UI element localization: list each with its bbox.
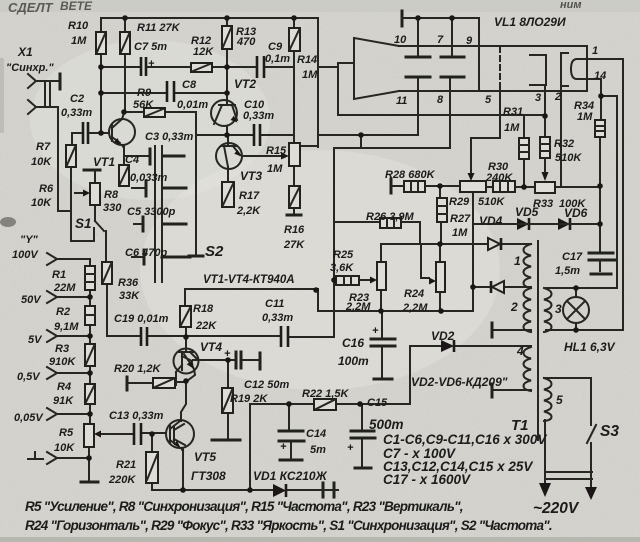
svg-text:10K: 10K bbox=[54, 442, 75, 454]
svg-text:R24 "Горизонталь", R29 "Фокус": R24 "Горизонталь", R29 "Фокус", R33 "Ярк… bbox=[25, 518, 552, 533]
svg-text:S3: S3 bbox=[600, 423, 619, 440]
svg-text:10K: 10K bbox=[31, 156, 52, 168]
svg-text:"Y": "Y" bbox=[20, 234, 39, 246]
svg-text:VD1 КС210Ж: VD1 КС210Ж bbox=[253, 469, 328, 483]
svg-text:+: + bbox=[280, 441, 287, 453]
svg-text:C9: C9 bbox=[268, 41, 283, 53]
svg-text:14: 14 bbox=[594, 70, 606, 82]
svg-text:C6 470p: C6 470p bbox=[125, 247, 167, 259]
svg-text:0,1m: 0,1m bbox=[265, 53, 290, 65]
svg-text:2,2K: 2,2K bbox=[236, 205, 261, 217]
svg-text:91K: 91K bbox=[53, 395, 74, 407]
svg-text:C5 3300p: C5 3300p bbox=[127, 206, 176, 218]
svg-text:R16: R16 bbox=[284, 224, 305, 236]
svg-text:VD2-VD6-КД209": VD2-VD6-КД209" bbox=[411, 375, 508, 389]
svg-text:R31: R31 bbox=[503, 106, 523, 118]
svg-text:5m: 5m bbox=[310, 444, 326, 456]
svg-text:510K: 510K bbox=[478, 196, 505, 208]
svg-text:HL1 6,3V: HL1 6,3V bbox=[564, 340, 616, 354]
svg-text:R14: R14 bbox=[297, 54, 317, 66]
svg-text:5: 5 bbox=[485, 94, 492, 106]
svg-text:C1-C6,C9-C11,C16 x 300V: C1-C6,C9-C11,C16 x 300V bbox=[383, 432, 547, 447]
svg-text:+: + bbox=[148, 58, 155, 70]
svg-text:VD6: VD6 bbox=[564, 206, 588, 220]
svg-text:2: 2 bbox=[554, 91, 561, 103]
svg-text:+: + bbox=[372, 325, 379, 337]
svg-text:56K: 56K bbox=[133, 99, 154, 111]
svg-text:C13 0,33m: C13 0,33m bbox=[109, 410, 164, 422]
svg-text:R18: R18 bbox=[193, 303, 214, 315]
svg-text:100V: 100V bbox=[12, 249, 39, 261]
svg-text:1M: 1M bbox=[577, 111, 593, 123]
svg-text:1: 1 bbox=[514, 254, 521, 268]
svg-text:VT4: VT4 bbox=[200, 340, 222, 354]
svg-text:R21: R21 bbox=[116, 459, 136, 471]
svg-text:C14: C14 bbox=[306, 428, 326, 440]
svg-text:R17: R17 bbox=[239, 190, 260, 202]
svg-text:0,01m: 0,01m bbox=[177, 99, 208, 111]
svg-text:C12 50m: C12 50m bbox=[244, 379, 289, 391]
svg-text:ВЕТЕ: ВЕТЕ bbox=[60, 0, 93, 13]
svg-text:4: 4 bbox=[516, 344, 524, 358]
svg-text:R9: R9 bbox=[137, 87, 152, 99]
svg-text:9,1M: 9,1M bbox=[54, 321, 79, 333]
svg-text:1: 1 bbox=[592, 45, 598, 57]
svg-text:C19 0,01m: C19 0,01m bbox=[114, 313, 169, 325]
svg-text:240K: 240K bbox=[485, 172, 513, 184]
svg-text:C2: C2 bbox=[70, 93, 84, 105]
svg-text:50V: 50V bbox=[21, 294, 42, 306]
svg-text:R20 1,2K: R20 1,2K bbox=[114, 363, 162, 375]
svg-text:2: 2 bbox=[510, 300, 518, 314]
svg-text:R28 680K: R28 680K bbox=[385, 169, 436, 181]
svg-text:8: 8 bbox=[437, 94, 444, 106]
svg-text:C11: C11 bbox=[265, 298, 284, 310]
svg-text:C15: C15 bbox=[367, 397, 388, 409]
svg-text:1M: 1M bbox=[504, 122, 520, 134]
svg-text:1M: 1M bbox=[267, 163, 283, 175]
svg-text:R2: R2 bbox=[56, 306, 70, 318]
svg-text:0,033m: 0,033m bbox=[130, 172, 168, 184]
svg-text:R19 2K: R19 2K bbox=[230, 393, 268, 405]
svg-text:СДЕЛТ: СДЕЛТ bbox=[8, 0, 54, 15]
svg-text:R3: R3 bbox=[55, 343, 69, 355]
svg-text:X1: X1 bbox=[17, 45, 33, 59]
svg-text:3,6K: 3,6K bbox=[330, 262, 354, 274]
svg-text:C16: C16 bbox=[342, 336, 364, 350]
svg-text:3: 3 bbox=[535, 92, 541, 104]
svg-text:500m: 500m bbox=[369, 417, 404, 432]
svg-text:R7: R7 bbox=[36, 141, 51, 153]
svg-text:3: 3 bbox=[555, 302, 562, 316]
svg-text:100m: 100m bbox=[338, 354, 369, 368]
svg-text:R36: R36 bbox=[118, 277, 139, 289]
svg-text:0,33m: 0,33m bbox=[262, 312, 293, 324]
svg-text:"Синхр.": "Синхр." bbox=[6, 62, 54, 74]
svg-text:R26 3,9M: R26 3,9M bbox=[366, 211, 415, 223]
svg-text:R24: R24 bbox=[404, 288, 424, 300]
svg-text:VT3: VT3 bbox=[240, 169, 262, 183]
svg-text:~220V: ~220V bbox=[533, 500, 580, 517]
svg-text:R15: R15 bbox=[266, 145, 287, 157]
svg-text:0,33m: 0,33m bbox=[243, 110, 274, 122]
svg-text:R6: R6 bbox=[39, 183, 54, 195]
svg-text:R10: R10 bbox=[68, 20, 89, 32]
svg-text:910K: 910K bbox=[49, 356, 76, 368]
svg-text:2,2M: 2,2M bbox=[402, 302, 428, 314]
svg-text:0,05V: 0,05V bbox=[14, 412, 44, 424]
svg-text:5V: 5V bbox=[28, 334, 43, 346]
svg-text:R29: R29 bbox=[449, 196, 470, 208]
svg-text:R4: R4 bbox=[57, 381, 71, 393]
svg-text:0,33m: 0,33m bbox=[61, 107, 92, 119]
svg-text:33K: 33K bbox=[119, 290, 140, 302]
svg-text:VD2: VD2 bbox=[431, 329, 455, 343]
svg-text:1M: 1M bbox=[302, 69, 318, 81]
svg-text:VL1 8ЛО29И: VL1 8ЛО29И bbox=[494, 15, 566, 29]
svg-text:22M: 22M bbox=[53, 282, 76, 294]
svg-text:R27: R27 bbox=[450, 213, 471, 225]
svg-text:VT1-VT4-КТ940А: VT1-VT4-КТ940А bbox=[203, 274, 295, 286]
svg-text:C7 5m: C7 5m bbox=[134, 41, 167, 53]
svg-text:+: + bbox=[347, 442, 354, 454]
svg-text:S2: S2 bbox=[205, 243, 224, 260]
svg-text:R32: R32 bbox=[554, 138, 574, 150]
svg-text:R22 1,5K: R22 1,5K bbox=[302, 388, 350, 400]
svg-text:VT1: VT1 bbox=[93, 155, 115, 169]
svg-text:R25: R25 bbox=[333, 249, 354, 261]
svg-text:12K: 12K bbox=[193, 46, 214, 58]
svg-text:10K: 10K bbox=[31, 197, 52, 209]
svg-text:220K: 220K bbox=[108, 474, 136, 486]
svg-text:7: 7 bbox=[437, 34, 444, 46]
svg-text:VT5: VT5 bbox=[194, 450, 216, 464]
svg-text:VD5: VD5 bbox=[515, 205, 539, 219]
svg-text:1M: 1M bbox=[452, 227, 468, 239]
svg-text:22K: 22K bbox=[195, 320, 217, 332]
svg-text:R5 "Усиление", R8 "Синхронизац: R5 "Усиление", R8 "Синхронизация", R15 "… bbox=[25, 499, 463, 514]
svg-text:R11 27K: R11 27K bbox=[137, 22, 181, 34]
svg-text:5: 5 bbox=[556, 393, 563, 407]
svg-text:S1: S1 bbox=[75, 216, 92, 231]
svg-text:VT2: VT2 bbox=[234, 77, 256, 91]
svg-text:VD4: VD4 bbox=[479, 214, 503, 228]
svg-text:470: 470 bbox=[236, 36, 256, 48]
svg-text:0,5V: 0,5V bbox=[17, 371, 41, 383]
svg-text:C3 0,33m: C3 0,33m bbox=[145, 131, 194, 143]
svg-text:9: 9 bbox=[466, 35, 473, 47]
svg-text:R5: R5 bbox=[59, 427, 74, 439]
svg-text:R1: R1 bbox=[52, 269, 66, 281]
svg-text:+: + bbox=[224, 348, 231, 360]
svg-text:1,5m: 1,5m bbox=[555, 265, 580, 277]
svg-text:R8: R8 bbox=[104, 189, 119, 201]
svg-text:C8: C8 bbox=[182, 79, 197, 91]
svg-text:C4: C4 bbox=[125, 154, 139, 166]
svg-text:11: 11 bbox=[396, 95, 407, 107]
svg-text:C17 - x 1600V: C17 - x 1600V bbox=[383, 472, 471, 487]
svg-text:ним: ним bbox=[560, 0, 582, 11]
svg-text:27K: 27K bbox=[283, 239, 305, 251]
svg-text:ГТ308: ГТ308 bbox=[191, 469, 226, 483]
svg-text:10: 10 bbox=[394, 34, 407, 46]
svg-text:C17: C17 bbox=[562, 251, 583, 263]
svg-text:330: 330 bbox=[103, 202, 122, 214]
svg-text:1M: 1M bbox=[71, 35, 87, 47]
svg-text:510K: 510K bbox=[555, 152, 582, 164]
svg-text:2,2M: 2,2M bbox=[345, 301, 371, 313]
